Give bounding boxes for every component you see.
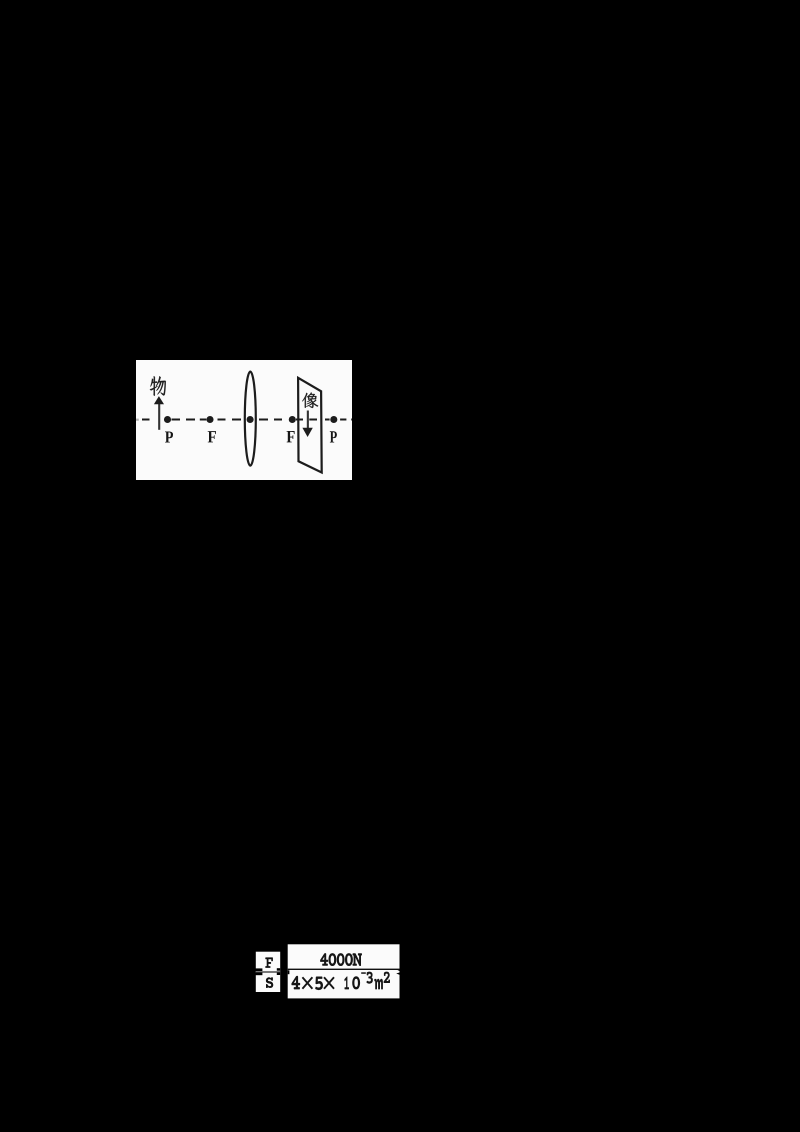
pressure formula p = F/S fragment (250, 940, 406, 1004)
superscript 3 (367, 972, 373, 984)
axis dot optical centre (247, 416, 254, 423)
white box: F over S fraction (256, 952, 280, 992)
axis dot F (right focus) (289, 416, 296, 423)
label F at x=71.7 (208, 431, 216, 442)
fraction bar of F/S (256, 971, 280, 972)
equals sign tick (left edge of big box) (288, 970, 290, 974)
label 像 (image) (302, 392, 318, 408)
image arrow (downward) (302, 411, 312, 438)
superscript minus of 10^-3 (361, 972, 366, 974)
fraction bar of big fraction (288, 969, 400, 970)
principal optical axis: leading gray stub (136, 419, 139, 421)
label P at x=29.0 (165, 432, 173, 443)
multiplication sign x (second) (324, 977, 334, 988)
equals sign tick (right edge of big box) (396, 969, 399, 971)
white panel: lens diagram background (136, 360, 352, 480)
label P at x=193.8 (330, 431, 337, 442)
superscript 2 of m^2 (384, 972, 390, 983)
numerator F (265, 957, 273, 968)
equals sign fragment (left edge of F/S box) (253, 968, 262, 971)
axis dot P (right, 2F) (330, 416, 337, 423)
object arrow (upward) (154, 396, 164, 430)
convex lens (ellipse) (245, 372, 256, 466)
label 物 (object) (150, 376, 166, 396)
denominator digits 4 5 10 m (291, 976, 383, 990)
principal optical axis (dash segments) (142, 418, 352, 420)
multiplication sign x (first) (302, 977, 312, 988)
white box: 4000N over 4x5x10^-3 m^2 (288, 944, 400, 998)
axis dot F (left focus) (206, 416, 213, 423)
equals sign fragment (right edge of F/S box) (277, 968, 280, 971)
numerator 4000N (320, 953, 362, 966)
denominator S (266, 977, 273, 988)
axis dot P (left, 2F) (164, 416, 171, 423)
label F at x=150.6 (287, 431, 295, 442)
image screen (parallelogram) (298, 378, 322, 473)
converging-lens imaging diagram (object at 2F -> image at 2F) (136, 360, 352, 480)
